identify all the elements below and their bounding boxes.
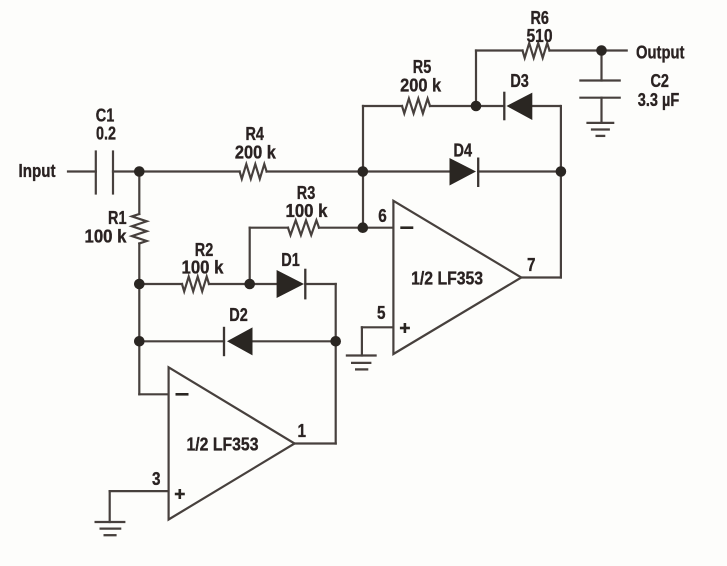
diode D1 (277, 269, 306, 300)
junction node R2/D1 (244, 279, 255, 290)
junction node D4/x561 (556, 166, 567, 177)
junction node C1/R1 (134, 166, 145, 177)
resistor R3 (288, 220, 319, 235)
wire vertical x139 lower (138, 244, 140, 395)
svg-text:6: 6 (378, 205, 387, 226)
wire vertical x139 upper (138, 172, 140, 215)
svg-text:100 k: 100 k (286, 200, 329, 221)
svg-text:200 k: 200 k (235, 141, 277, 162)
wire C2 stem lower (600, 98, 602, 123)
svg-text:D4: D4 (454, 140, 473, 161)
junction node pin6 (358, 222, 369, 233)
svg-text:1/2 LF353: 1/2 LF353 (187, 434, 259, 455)
wire U1B ground stem (361, 327, 363, 355)
svg-text:5: 5 (377, 302, 386, 323)
diode D4 (450, 158, 479, 188)
capacitor C1 (96, 152, 113, 194)
wire C1 to R4 (113, 170, 240, 172)
svg-text:Input: Input (19, 160, 56, 181)
wire D4 cathode to node (478, 170, 561, 172)
svg-text:1: 1 (298, 420, 307, 441)
op-amp U1A (169, 367, 295, 519)
wire R3 to op-amp U1B pin 6 (319, 227, 393, 229)
wire op-amp U1A non-inverting input pin 3 (110, 490, 169, 492)
svg-text:D2: D2 (229, 304, 248, 325)
wire D2 row left (139, 340, 224, 342)
resistor R4 (240, 164, 267, 179)
wire node to R2 (139, 283, 182, 285)
svg-text:100 k: 100 k (85, 226, 128, 247)
wire op-amp U1B non-inverting input pin 5 (362, 326, 394, 328)
junction node R4/x363 (358, 166, 369, 177)
svg-text:7: 7 (527, 254, 536, 275)
svg-text:510: 510 (527, 25, 553, 46)
wire R3 row left (250, 227, 288, 229)
junction node R5/D3 (471, 101, 482, 112)
ground U1A (95, 522, 126, 535)
wire R6 row left (476, 49, 523, 51)
svg-text:1/2 LF353: 1/2 LF353 (411, 268, 483, 289)
wire D3 anode to corner (532, 105, 560, 107)
ground U1B (346, 356, 377, 370)
svg-text:D1: D1 (281, 249, 300, 270)
junction node R1/R2 (134, 279, 145, 290)
svg-text:C2: C2 (650, 70, 669, 91)
wire vertical x336 (335, 284, 337, 444)
diode D3 (504, 92, 532, 121)
resistor R2 (182, 277, 209, 292)
capacitor C2 (580, 81, 619, 98)
wire input lead (68, 170, 96, 172)
resistor R1 (132, 214, 147, 244)
svg-text:D3: D3 (510, 70, 529, 91)
diode D2 (224, 327, 253, 356)
svg-text:Output: Output (636, 41, 685, 62)
svg-text:0.2: 0.2 (96, 123, 116, 144)
wire vertical x476 (475, 51, 477, 107)
resistor R6 (523, 43, 550, 58)
wire U1A ground stem (109, 491, 111, 522)
wire op-amp U1A output pin 1 (295, 442, 336, 444)
resistor R5 (402, 99, 430, 114)
wire R5 row left (363, 105, 402, 107)
wire vertical x249 (249, 228, 251, 284)
svg-text:3.3 µF: 3.3 µF (638, 89, 680, 110)
op-amp U1B (393, 201, 521, 354)
wire op-amp U1A inverting input (139, 393, 168, 395)
svg-text:100 k: 100 k (182, 257, 225, 278)
svg-text:3: 3 (152, 468, 161, 489)
wire R4 to D4 (267, 170, 450, 172)
wire R2 to D1 (209, 283, 277, 285)
wire op-amp U1B output pin 7 (521, 276, 561, 278)
svg-text:200 k: 200 k (400, 75, 442, 96)
junction node D2 right (330, 336, 341, 347)
wire R6 to output (550, 49, 627, 51)
ground C2 (586, 123, 614, 136)
wire vertical x363 (362, 106, 364, 228)
junction node output (596, 45, 607, 56)
wire vertical x561 (560, 106, 562, 278)
wire D2 cathode bar to right node (253, 340, 336, 342)
wire R5 to D3 (430, 105, 504, 107)
wire D1 cathode to corner (305, 283, 335, 285)
wire C2 stem upper (600, 51, 602, 81)
junction node D2 left (134, 336, 145, 347)
